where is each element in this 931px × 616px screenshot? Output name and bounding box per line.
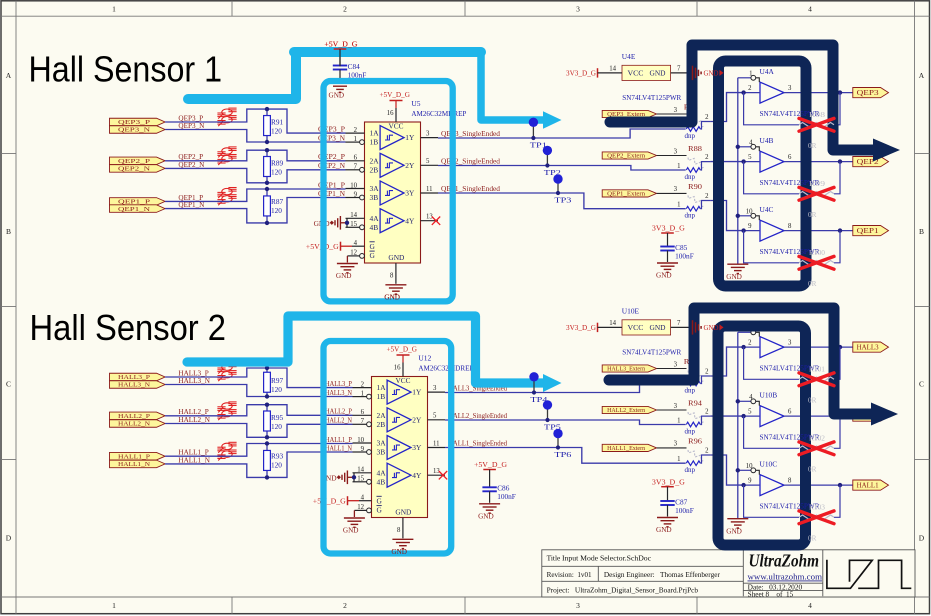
svg-text:3V3_D_G: 3V3_D_G bbox=[652, 478, 685, 486]
port HALL2 bbox=[853, 411, 889, 421]
power port GND at pin 7 bbox=[692, 320, 694, 334]
svg-text:8: 8 bbox=[397, 527, 401, 534]
svg-text:3: 3 bbox=[576, 601, 580, 610]
svg-text:14: 14 bbox=[357, 467, 364, 474]
svg-text:HALL1_P: HALL1_P bbox=[325, 436, 352, 444]
pin output of U10A bbox=[784, 346, 853, 348]
svg-text:R99: R99 bbox=[809, 180, 826, 188]
resistor R98 0R (not fitted) bypass bbox=[744, 93, 799, 125]
svg-text:3A: 3A bbox=[377, 439, 387, 448]
svg-text:GND: GND bbox=[336, 272, 352, 280]
svg-text:QEP3_N: QEP3_N bbox=[178, 122, 205, 130]
svg-text:2: 2 bbox=[705, 448, 709, 455]
pin 12 (G inverted) bbox=[347, 255, 359, 257]
svg-text:R98: R98 bbox=[809, 111, 826, 119]
svg-text:HALL3_P: HALL3_P bbox=[325, 380, 352, 388]
resistor R86 fitted element bbox=[686, 127, 700, 132]
svg-text:2B: 2B bbox=[377, 420, 386, 429]
svg-text:120: 120 bbox=[271, 126, 282, 135]
svg-text:HALL1: HALL1 bbox=[857, 482, 879, 489]
resistor R101 0R (not fitted) bypass bbox=[744, 347, 799, 379]
svg-text:QEP3_P: QEP3_P bbox=[118, 119, 151, 126]
capacitor C87 100nF bbox=[667, 487, 669, 501]
capacitor C85 100nF bbox=[667, 233, 669, 247]
ground at U5 pin 12 bbox=[346, 256, 348, 263]
highlight box around U4 buffers (navy) bbox=[719, 61, 807, 286]
svg-text:dnp: dnp bbox=[685, 386, 696, 394]
resistor R102 0R (not fitted) bypass bbox=[744, 416, 799, 448]
pin 3 of R96 bbox=[657, 447, 687, 449]
resistor R88 fitted element bbox=[686, 168, 700, 173]
junction bbox=[265, 394, 269, 398]
svg-text:3Y: 3Y bbox=[412, 443, 422, 452]
pin input of U4B bbox=[744, 161, 760, 163]
ground at C84 bbox=[339, 70, 341, 83]
svg-text:R88: R88 bbox=[688, 145, 702, 153]
title block bbox=[542, 550, 915, 597]
svg-text:14: 14 bbox=[609, 65, 616, 72]
no-connect X on pin 13 bbox=[439, 471, 447, 479]
svg-text:9: 9 bbox=[748, 478, 752, 485]
svg-text:3: 3 bbox=[788, 340, 792, 347]
resistor R103 zigzag (not fitted) bbox=[799, 515, 834, 520]
svg-text:6: 6 bbox=[788, 409, 792, 416]
svg-text:VCC: VCC bbox=[628, 324, 644, 332]
junction bbox=[838, 159, 842, 163]
test point TP2 bbox=[546, 150, 548, 165]
junction bbox=[741, 228, 745, 232]
svg-text:4: 4 bbox=[361, 495, 365, 502]
ground at C87 bbox=[667, 505, 669, 517]
pin 5 (output 2Y) bbox=[428, 419, 446, 421]
junction bbox=[741, 414, 745, 418]
port HALL3 bbox=[853, 342, 889, 352]
port QEP3 bbox=[853, 88, 889, 98]
port HALL1_N bbox=[110, 460, 166, 468]
svg-text:G: G bbox=[377, 506, 383, 515]
pin 7 (inverting input 2B) bbox=[346, 169, 360, 171]
port HALL2_Extern bbox=[602, 406, 656, 413]
svg-text:2: 2 bbox=[748, 340, 752, 347]
junction bbox=[736, 468, 740, 472]
port QEP3_P bbox=[110, 118, 166, 126]
svg-text:11: 11 bbox=[433, 440, 440, 447]
svg-text:Input Mode Selector.SchDoc: Input Mode Selector.SchDoc bbox=[562, 554, 652, 563]
pin 2 of R94 bbox=[700, 416, 710, 424]
svg-text:R102: R102 bbox=[809, 435, 825, 443]
svg-text:SN74LV4T125PWR: SN74LV4T125PWR bbox=[622, 348, 681, 357]
svg-text:3: 3 bbox=[674, 403, 678, 410]
svg-text:Design Engineer: Thomas Effe: Design Engineer: Thomas Effenberger bbox=[604, 570, 721, 579]
svg-text:3Y: 3Y bbox=[405, 189, 415, 198]
svg-text:HALL2_N: HALL2_N bbox=[325, 417, 353, 425]
junction bbox=[838, 345, 842, 349]
wire QEP1_SingleEnded bbox=[438, 193, 686, 209]
port QEP1_N bbox=[110, 205, 166, 213]
test point TP5 bbox=[547, 405, 549, 420]
pin 5 (output 2Y) bbox=[421, 164, 439, 166]
highlight path Hall Sensor 1 output flow (navy) bbox=[610, 45, 873, 150]
svg-text:14: 14 bbox=[350, 212, 357, 219]
resistor R102 zigzag (not fitted) bbox=[799, 446, 834, 451]
svg-text:3V3_D_G: 3V3_D_G bbox=[566, 69, 596, 77]
svg-text:QEP1_Extern: QEP1_Extern bbox=[607, 191, 646, 198]
svg-text:1: 1 bbox=[112, 601, 116, 610]
svg-text:Hall Sensor 2: Hall Sensor 2 bbox=[30, 307, 227, 348]
buffer U4A SN74LV4T125PWR bbox=[760, 82, 784, 103]
svg-text:GND: GND bbox=[650, 70, 666, 78]
pin 14 (input 4A) bbox=[353, 472, 372, 474]
buffer U10B SN74LV4T125PWR bbox=[760, 406, 784, 427]
svg-text:3V3_D_G: 3V3_D_G bbox=[652, 225, 685, 233]
pin 1 (inverting input 1B) bbox=[346, 141, 360, 143]
pin output of U10C bbox=[784, 484, 853, 486]
buffer U12B bbox=[387, 408, 411, 432]
pin OE of U4A bbox=[738, 77, 751, 79]
svg-text:4A: 4A bbox=[370, 214, 380, 223]
svg-text:U5: U5 bbox=[411, 99, 420, 108]
differential pair marker HALL3_N bbox=[217, 371, 236, 382]
pin 6 (input 2A) bbox=[353, 414, 372, 416]
svg-text:QEP2_N: QEP2_N bbox=[118, 166, 150, 173]
svg-text:1: 1 bbox=[354, 136, 357, 143]
svg-text:G: G bbox=[370, 242, 376, 251]
port HALL3_P bbox=[110, 373, 166, 381]
buffer U12D bbox=[387, 463, 411, 487]
differential pair marker HALL2_N bbox=[217, 410, 236, 421]
pin 11 (output 3Y) bbox=[428, 447, 446, 449]
wire to buffer U10B bbox=[710, 415, 743, 417]
not-fitted cross on R101 bbox=[799, 373, 834, 386]
pin 1 (inverting input 1B) bbox=[353, 396, 367, 398]
wire HALL1_P bbox=[165, 444, 352, 457]
svg-text:0R: 0R bbox=[808, 142, 817, 150]
svg-text:QEP2_Extern: QEP2_Extern bbox=[607, 153, 646, 160]
resistor R97 120 bbox=[266, 368, 268, 397]
wire GND tie bbox=[347, 476, 354, 478]
svg-text:2Y: 2Y bbox=[412, 415, 422, 424]
wire HALL3_N bbox=[165, 385, 352, 397]
svg-text:3V3_D_G: 3V3_D_G bbox=[566, 324, 596, 332]
wire to buffer U10A bbox=[710, 347, 743, 376]
svg-text:3: 3 bbox=[674, 148, 678, 155]
svg-text:dnp: dnp bbox=[685, 212, 696, 220]
differential pair marker QEP1_N bbox=[217, 195, 236, 206]
svg-text:A: A bbox=[6, 71, 12, 80]
svg-text:U12: U12 bbox=[418, 354, 431, 363]
pin input of U10C bbox=[744, 484, 760, 486]
resistor R99 0R (not fitted) bypass bbox=[744, 162, 799, 194]
svg-text:2: 2 bbox=[705, 409, 709, 416]
resistor R100 0R (not fitted) bypass bbox=[744, 231, 799, 263]
svg-text:HALL3_P: HALL3_P bbox=[118, 374, 150, 381]
svg-text:dnp: dnp bbox=[685, 132, 696, 140]
port QEP2 bbox=[853, 157, 889, 167]
buffer U5A bbox=[380, 126, 404, 150]
junction bbox=[265, 221, 269, 225]
port HALL1_Extern bbox=[602, 444, 656, 451]
svg-text:QEP3_N: QEP3_N bbox=[118, 127, 150, 134]
pin 3 (output 1Y) bbox=[428, 391, 446, 393]
junction bbox=[265, 475, 269, 479]
pin 2 of R86 bbox=[700, 122, 710, 130]
junction bbox=[265, 140, 269, 144]
port HALL1_P bbox=[110, 452, 166, 460]
wire HALL1_N bbox=[165, 452, 352, 477]
wire HALL2_SingleEnded bbox=[445, 420, 686, 425]
svg-text:15: 15 bbox=[350, 221, 357, 228]
port HALL1 bbox=[853, 480, 889, 490]
buffer U5B bbox=[380, 153, 404, 177]
buffer U12A bbox=[387, 380, 411, 404]
pin 10 (input 3A) bbox=[346, 188, 365, 190]
svg-text:HALL2_N: HALL2_N bbox=[118, 421, 150, 428]
port QEP2_N bbox=[110, 165, 166, 173]
svg-text:C: C bbox=[919, 380, 924, 389]
svg-text:9: 9 bbox=[354, 191, 358, 198]
svg-text:+5V_D_G: +5V_D_G bbox=[380, 91, 410, 99]
resistor R99 zigzag (not fitted) bbox=[799, 192, 834, 197]
svg-text:G: G bbox=[377, 496, 383, 505]
power part U4E SN74LV4T125PWR bbox=[622, 65, 671, 80]
svg-text:GND: GND bbox=[726, 527, 742, 535]
pin 9 (inverting input 3B) bbox=[346, 197, 360, 199]
resistor R94 fitted element bbox=[686, 422, 700, 427]
pin 7 of U4E bbox=[671, 72, 690, 74]
svg-text:HALL1_Extern: HALL1_Extern bbox=[607, 445, 646, 452]
ground at U12 pin 12 bbox=[353, 510, 355, 517]
svg-text:Project: UltraZohm_Digital_S: Project: UltraZohm_Digital_Sensor_Board.… bbox=[547, 585, 699, 594]
svg-text:100nF: 100nF bbox=[497, 492, 516, 501]
svg-text:R103: R103 bbox=[809, 504, 825, 512]
svg-text:G: G bbox=[370, 251, 376, 260]
svg-text:1A: 1A bbox=[370, 129, 380, 138]
svg-text:120: 120 bbox=[271, 422, 282, 431]
UltraZohm square-wave logo bbox=[827, 560, 911, 589]
svg-text:HALL2_Extern: HALL2_Extern bbox=[607, 407, 646, 414]
ground at C86 bbox=[489, 491, 491, 503]
svg-text:Title: Title bbox=[547, 554, 561, 563]
pin 3 of R94 bbox=[657, 409, 687, 411]
buffer U4B SN74LV4T125PWR bbox=[760, 151, 784, 172]
not-fitted cross on R100 bbox=[799, 256, 834, 269]
svg-text:AM26C32MDREP: AM26C32MDREP bbox=[418, 364, 473, 373]
svg-text:Revision: 1v01: Revision: 1v01 bbox=[547, 570, 592, 579]
svg-text:+5V_D_G: +5V_D_G bbox=[324, 41, 357, 49]
svg-text:6: 6 bbox=[788, 154, 792, 161]
pin 16 (VCC) bbox=[395, 108, 397, 122]
svg-text:+5V_D_G: +5V_D_G bbox=[387, 346, 417, 354]
svg-text:4: 4 bbox=[808, 4, 812, 13]
pin OE of U10A bbox=[738, 331, 751, 333]
differential pair marker QEP1_P bbox=[217, 188, 236, 199]
not-fitted cross on R98 bbox=[799, 118, 834, 131]
wire to buffer U10C bbox=[710, 455, 743, 485]
svg-text:VCC: VCC bbox=[628, 70, 644, 78]
svg-text:4B: 4B bbox=[370, 223, 379, 232]
junction bbox=[265, 107, 269, 111]
wire QEP2_P bbox=[165, 150, 345, 161]
svg-text:U10B: U10B bbox=[760, 390, 778, 399]
resistor R98 zigzag (not fitted) bbox=[799, 123, 834, 128]
svg-text:dnp: dnp bbox=[685, 427, 696, 435]
pin 2 (input 1A) bbox=[353, 387, 372, 389]
junction bbox=[265, 181, 269, 185]
svg-text:dnp: dnp bbox=[685, 466, 696, 474]
svg-text:3: 3 bbox=[576, 4, 580, 13]
resistor R91 120 bbox=[266, 109, 268, 142]
svg-text:11: 11 bbox=[426, 186, 433, 193]
svg-text:Sheet 8 of 15: Sheet 8 of 15 bbox=[748, 590, 794, 598]
svg-text:1Y: 1Y bbox=[412, 388, 422, 397]
svg-text:4: 4 bbox=[808, 601, 812, 610]
svg-text:0R: 0R bbox=[808, 280, 817, 288]
pin 7 (inverting input 2B) bbox=[353, 423, 367, 425]
svg-text:HALL1_N: HALL1_N bbox=[178, 456, 210, 464]
svg-text:R101: R101 bbox=[809, 366, 825, 374]
differential pair marker HALL2_P bbox=[217, 402, 236, 413]
svg-text:14: 14 bbox=[609, 320, 616, 327]
wire QEP3_P bbox=[165, 109, 345, 133]
svg-text:GND: GND bbox=[656, 526, 672, 534]
pin 3 of R92 bbox=[657, 368, 687, 370]
op-amp U12 AM26C32MDREP quad differential receiver bbox=[372, 377, 428, 518]
junction bbox=[741, 345, 745, 349]
svg-text:HALL1_N: HALL1_N bbox=[118, 461, 150, 468]
svg-text:R95: R95 bbox=[271, 413, 284, 422]
not-fitted cross on R99 bbox=[799, 187, 834, 200]
svg-text:HALL2_N: HALL2_N bbox=[178, 416, 210, 424]
svg-text:10: 10 bbox=[746, 463, 753, 470]
wire QEP3_SingleEnded bbox=[438, 129, 686, 138]
svg-text:GND: GND bbox=[395, 508, 411, 517]
capacitor C84 100nF bbox=[339, 49, 341, 66]
svg-text:R89: R89 bbox=[271, 158, 284, 167]
port QEP2_Extern bbox=[602, 152, 656, 159]
highlight path Hall Sensor 2 input flow (cyan) bbox=[187, 316, 545, 383]
svg-text:HALL3_N: HALL3_N bbox=[118, 382, 150, 389]
resistor R89 120 bbox=[266, 150, 268, 183]
svg-text:TP6: TP6 bbox=[554, 451, 572, 459]
svg-text:2: 2 bbox=[748, 85, 752, 92]
svg-text:2A: 2A bbox=[370, 156, 380, 165]
port HALL3_N bbox=[110, 381, 166, 389]
svg-text:3B: 3B bbox=[377, 448, 386, 457]
svg-text:HALL3_N: HALL3_N bbox=[178, 377, 210, 385]
pin 4 (G) bbox=[341, 245, 353, 247]
svg-text:120: 120 bbox=[271, 206, 282, 215]
svg-text:U10E: U10E bbox=[622, 306, 640, 315]
svg-text:10: 10 bbox=[746, 209, 753, 216]
wire OE rail bbox=[737, 78, 739, 264]
ground at OE rail bbox=[727, 263, 748, 265]
svg-text:3: 3 bbox=[433, 385, 437, 392]
resistor R101 zigzag (not fitted) bbox=[799, 377, 834, 382]
svg-text:HALL1_P: HALL1_P bbox=[118, 453, 150, 460]
svg-text:3B: 3B bbox=[370, 193, 379, 202]
test point TP3 bbox=[557, 179, 559, 193]
resistor R96 fitted element bbox=[686, 461, 700, 466]
ground at OE rail bbox=[727, 518, 748, 520]
highlight path Hall Sensor 2 output flow (navy) bbox=[609, 308, 871, 414]
differential pair marker QEP2_N bbox=[217, 155, 236, 166]
svg-text:1: 1 bbox=[112, 4, 116, 13]
no-connect X on pin 13 bbox=[432, 217, 440, 225]
pin input of U4A bbox=[744, 92, 760, 94]
svg-text:GND: GND bbox=[391, 548, 407, 556]
junction bbox=[736, 145, 740, 149]
svg-text:R93: R93 bbox=[271, 452, 284, 461]
svg-text:4Y: 4Y bbox=[412, 471, 422, 480]
section Hall Sensor 2 bbox=[110, 306, 889, 556]
svg-text:U4E: U4E bbox=[622, 52, 636, 61]
wire to buffer U4A bbox=[710, 93, 743, 122]
highlight box around U5 (cyan) bbox=[324, 81, 453, 301]
svg-text:HALL3_N: HALL3_N bbox=[325, 389, 353, 397]
differential pair marker HALL1_N bbox=[217, 450, 236, 461]
svg-text:1: 1 bbox=[677, 202, 680, 209]
svg-text:1B: 1B bbox=[370, 138, 379, 147]
wire HALL2_N bbox=[165, 424, 352, 438]
highlight path Hall Sensor 1 input flow (cyan) bbox=[188, 54, 296, 99]
wire OE rail bbox=[737, 332, 739, 518]
svg-text:6: 6 bbox=[354, 155, 358, 162]
svg-text:GND: GND bbox=[388, 253, 404, 262]
svg-text:QEP1_N: QEP1_N bbox=[178, 201, 205, 209]
ground at U5 pin 8 bbox=[385, 284, 406, 286]
svg-text:1: 1 bbox=[677, 418, 680, 425]
svg-text:2: 2 bbox=[343, 601, 347, 610]
svg-text:7: 7 bbox=[677, 320, 681, 327]
pin 2 of R96 bbox=[700, 455, 710, 463]
svg-text:7: 7 bbox=[361, 418, 365, 425]
svg-text:7: 7 bbox=[354, 164, 358, 171]
junction bbox=[736, 399, 740, 403]
junction bbox=[265, 187, 269, 191]
pin 13 (output 4Y) bbox=[428, 474, 446, 476]
port QEP3_Extern bbox=[602, 110, 656, 117]
svg-text:9: 9 bbox=[361, 446, 365, 453]
svg-text:VCC: VCC bbox=[396, 376, 411, 385]
svg-text:4: 4 bbox=[354, 240, 358, 247]
port HALL3_Extern bbox=[602, 365, 656, 372]
svg-text:TP3: TP3 bbox=[554, 197, 572, 205]
svg-text:10: 10 bbox=[350, 182, 357, 189]
junction bbox=[838, 228, 842, 232]
resistor R90 fitted element bbox=[686, 206, 700, 211]
svg-text:3: 3 bbox=[674, 441, 678, 448]
differential pair marker HALL3_P bbox=[217, 363, 236, 374]
buffer U4C SN74LV4T125PWR bbox=[760, 220, 784, 241]
junction at TP4 bbox=[532, 390, 536, 394]
svg-text:2B: 2B bbox=[370, 165, 379, 174]
pin 2 (input 1A) bbox=[346, 132, 365, 134]
port QEP1_P bbox=[110, 198, 166, 206]
svg-text:2: 2 bbox=[343, 4, 347, 13]
pin 2 of R90 bbox=[700, 201, 710, 209]
svg-text:5: 5 bbox=[748, 409, 752, 416]
svg-text:R91: R91 bbox=[271, 117, 284, 126]
pin 8 (GND) bbox=[395, 263, 397, 284]
svg-text:UltraZohm: UltraZohm bbox=[749, 551, 820, 571]
svg-text:AM26C32MDREP: AM26C32MDREP bbox=[411, 109, 466, 118]
svg-text:R94: R94 bbox=[688, 400, 702, 408]
svg-text:3: 3 bbox=[788, 85, 792, 92]
pin 4 (G) bbox=[348, 500, 360, 502]
pin 14 of U10E bbox=[598, 326, 623, 328]
svg-text:GND: GND bbox=[656, 272, 672, 280]
svg-text:5: 5 bbox=[748, 154, 752, 161]
